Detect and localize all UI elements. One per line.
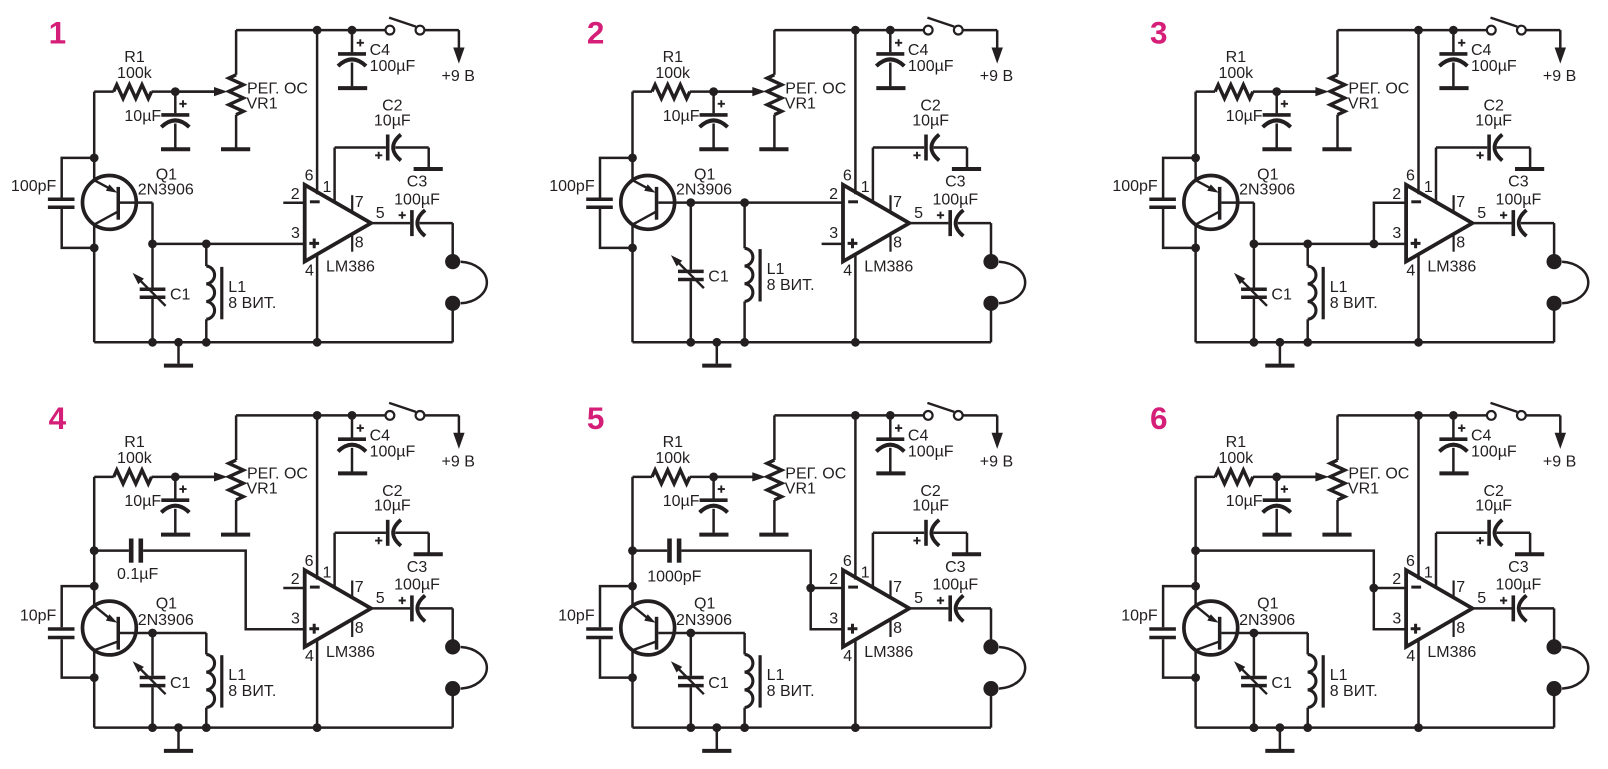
capacitor 10µF bbox=[1275, 477, 1278, 499]
resistor R1 bbox=[1196, 90, 1216, 93]
ground VR1 bbox=[759, 533, 788, 537]
svg-text:R1: R1 bbox=[663, 49, 684, 66]
10µF plus sign bbox=[179, 486, 186, 493]
10µF plus sign bbox=[179, 100, 186, 107]
node pin6 junction on rail bbox=[1414, 26, 1423, 35]
potentiometer VR1 bbox=[1336, 415, 1339, 460]
wire pin 1 bbox=[1435, 148, 1438, 203]
C2 plus sign bbox=[1477, 152, 1484, 159]
svg-text:10µF: 10µF bbox=[912, 498, 949, 515]
svg-text:3: 3 bbox=[1392, 610, 1401, 627]
node bypass top bbox=[628, 582, 637, 591]
svg-text:100pF: 100pF bbox=[549, 178, 595, 195]
U1 plus sign bbox=[309, 624, 319, 634]
capacitor C3 bbox=[1472, 222, 1511, 225]
ground VR1 bbox=[1322, 147, 1351, 151]
switch SA1 bbox=[386, 26, 395, 35]
node bypass top bbox=[1191, 154, 1200, 163]
C4 plus sign bbox=[895, 39, 902, 46]
wire C3 to jack bbox=[1553, 608, 1556, 641]
node bypass top bbox=[90, 582, 99, 591]
jack terminal top bbox=[445, 639, 460, 654]
switch SA1 bbox=[386, 411, 395, 420]
svg-text:L1: L1 bbox=[767, 667, 785, 684]
wire base lead bbox=[1221, 201, 1254, 204]
inductor L1 bbox=[205, 633, 208, 654]
ground bottom bbox=[716, 342, 719, 363]
pin 7 tick bbox=[889, 581, 891, 599]
svg-text:10µF: 10µF bbox=[1226, 108, 1263, 125]
U1 minus sign bbox=[848, 586, 858, 589]
svg-text:L1: L1 bbox=[228, 667, 246, 684]
wire top supply rail bbox=[774, 29, 923, 32]
VR1 wiper arrow bbox=[714, 90, 753, 93]
svg-text:100µF: 100µF bbox=[394, 577, 440, 594]
svg-text:10µF: 10µF bbox=[663, 108, 700, 125]
svg-text:8: 8 bbox=[893, 235, 902, 252]
wire C3 to jack bbox=[451, 608, 454, 641]
wire to +9 B bbox=[1559, 30, 1562, 50]
svg-text:2N3906: 2N3906 bbox=[1239, 182, 1295, 199]
VR1 wiper arrow bbox=[175, 476, 214, 479]
switch SA1 bbox=[924, 411, 933, 420]
wire left collector branch bbox=[1194, 650, 1197, 727]
svg-text:6: 6 bbox=[843, 553, 852, 570]
svg-text:100µF: 100µF bbox=[1496, 191, 1542, 208]
svg-text:10µF: 10µF bbox=[1226, 493, 1263, 510]
U1 plus sign bbox=[848, 624, 858, 634]
node pin 4 rail bbox=[1414, 338, 1423, 347]
ground 10µF bbox=[161, 147, 190, 151]
wire top supply rail bbox=[236, 29, 385, 32]
pin 7 tick bbox=[351, 581, 353, 599]
node C1 bottom bbox=[1250, 723, 1259, 732]
ground bottom bbox=[177, 342, 180, 363]
ground 10µF bbox=[161, 533, 190, 537]
L1 core bar bbox=[758, 249, 761, 301]
node pin 4 rail bbox=[313, 338, 322, 347]
node L1 bottom bbox=[740, 723, 749, 732]
svg-text:1: 1 bbox=[323, 564, 332, 581]
svg-text:100k: 100k bbox=[655, 450, 691, 467]
pin 2 stub bbox=[283, 587, 304, 590]
node C1 top bbox=[148, 240, 157, 249]
svg-text:LM386: LM386 bbox=[326, 644, 375, 661]
node bypass bottom bbox=[628, 244, 637, 253]
node bypass bottom bbox=[90, 673, 99, 682]
op-amp U1 LM386 bbox=[305, 570, 371, 647]
node C4 junction on rail bbox=[886, 411, 895, 420]
transistor Q1 bbox=[1184, 176, 1238, 230]
wire C3 to jack bbox=[451, 223, 454, 256]
wire to +9 B bbox=[996, 415, 999, 435]
svg-text:8 ВИТ.: 8 ВИТ. bbox=[228, 295, 276, 312]
capacitor C2 bbox=[1436, 532, 1487, 535]
svg-text:7: 7 bbox=[1456, 194, 1465, 211]
pin 7 tick bbox=[1453, 195, 1455, 213]
node pin6 junction on rail bbox=[313, 26, 322, 35]
10µF plus sign bbox=[718, 486, 725, 493]
wire pin 6 bbox=[854, 415, 857, 579]
svg-text:+9 В: +9 В bbox=[442, 454, 475, 471]
node L1 top bbox=[202, 240, 211, 249]
ground 10µF bbox=[1262, 147, 1291, 151]
wire pin 1 bbox=[333, 533, 336, 588]
capacitor 10µF bbox=[712, 477, 715, 499]
svg-text:3: 3 bbox=[829, 225, 838, 242]
svg-text:2: 2 bbox=[1392, 571, 1401, 588]
svg-text:10µF: 10µF bbox=[663, 493, 700, 510]
svg-text:C4: C4 bbox=[370, 428, 391, 445]
svg-text:8 ВИТ.: 8 ВИТ. bbox=[1330, 683, 1378, 700]
ground 10µF bbox=[699, 533, 728, 537]
wire pin 4 bbox=[1417, 639, 1420, 728]
transistor Q1 bbox=[83, 601, 137, 655]
svg-text:10µF: 10µF bbox=[374, 498, 411, 515]
op-amp U1 LM386 bbox=[305, 185, 371, 262]
svg-text:1000pF: 1000pF bbox=[647, 568, 701, 585]
svg-text:6: 6 bbox=[1406, 168, 1415, 185]
svg-text:2N3906: 2N3906 bbox=[138, 182, 194, 199]
wire coupling to pin 3 bbox=[143, 551, 305, 630]
transistor Q1 bbox=[83, 176, 137, 230]
node C4 junction on rail bbox=[1449, 26, 1458, 35]
svg-text:7: 7 bbox=[1456, 579, 1465, 596]
wire pin 4 bbox=[854, 253, 857, 342]
wire lead to L1 bbox=[1254, 632, 1308, 635]
C3 plus sign bbox=[937, 597, 944, 604]
VR1 wiper arrow bbox=[1277, 476, 1316, 479]
wire pin 6 bbox=[1417, 30, 1420, 194]
node L1 bottom bbox=[740, 338, 749, 347]
potentiometer VR1 bbox=[1336, 30, 1339, 75]
jack cable arc bbox=[1562, 647, 1588, 689]
ground VR1 bbox=[1322, 533, 1351, 537]
svg-text:7: 7 bbox=[893, 194, 902, 211]
wire base lead bbox=[120, 632, 153, 635]
node riser pin2 junction bbox=[806, 584, 815, 593]
capacitor C2 bbox=[873, 532, 924, 535]
wire base lead bbox=[658, 632, 691, 635]
node C4 junction on rail bbox=[886, 26, 895, 35]
L1 core bar bbox=[758, 655, 761, 707]
capacitor C4 bbox=[1452, 30, 1455, 52]
wire top supply rail bbox=[236, 414, 385, 417]
svg-text:R1: R1 bbox=[1226, 434, 1247, 451]
svg-text:5: 5 bbox=[376, 205, 385, 222]
svg-text:3: 3 bbox=[1392, 225, 1401, 242]
svg-text:2: 2 bbox=[291, 186, 300, 203]
wire top supply rail bbox=[774, 414, 923, 417]
node C1 top bbox=[686, 198, 695, 207]
svg-text:10µF: 10µF bbox=[1475, 112, 1512, 129]
capacitor C1 bbox=[151, 633, 154, 676]
svg-text:C1: C1 bbox=[170, 287, 191, 304]
ground C2 bbox=[1515, 552, 1544, 556]
capacitor C4 bbox=[889, 415, 892, 437]
wire left emitter branch bbox=[1194, 477, 1197, 606]
node C1 top bbox=[1250, 629, 1259, 638]
svg-text:Q1: Q1 bbox=[156, 596, 177, 613]
wire base lead to pin 2 bbox=[658, 201, 843, 204]
svg-text:1: 1 bbox=[1424, 179, 1433, 196]
node pin6 junction on rail bbox=[851, 26, 860, 35]
node C1 bottom bbox=[1250, 338, 1259, 347]
svg-text:+9 В: +9 В bbox=[442, 68, 475, 85]
C1 trimmer arrow bbox=[1238, 666, 1267, 695]
svg-text:+9 В: +9 В bbox=[1543, 454, 1576, 471]
C4 plus sign bbox=[1458, 425, 1465, 432]
capacitor 10µF bbox=[1275, 92, 1278, 114]
wire to coupling cap bbox=[633, 549, 668, 552]
svg-text:5: 5 bbox=[1477, 590, 1486, 607]
switch SA1 bbox=[1487, 26, 1496, 35]
svg-text:C3: C3 bbox=[1508, 559, 1529, 576]
wire left collector branch bbox=[631, 225, 634, 343]
wire left emitter branch bbox=[631, 477, 634, 606]
svg-text:100µF: 100µF bbox=[1496, 577, 1542, 594]
L1 core bar bbox=[220, 267, 223, 319]
svg-text:10µF: 10µF bbox=[374, 112, 411, 129]
node R1/10uF junction bbox=[1272, 473, 1281, 482]
svg-text:100µF: 100µF bbox=[908, 444, 954, 461]
U1 minus sign bbox=[1411, 586, 1421, 589]
node C1 bottom bbox=[148, 723, 157, 732]
svg-text:2: 2 bbox=[829, 571, 838, 588]
C4 plus sign bbox=[895, 425, 902, 432]
svg-text:5: 5 bbox=[1477, 205, 1486, 222]
wire C3 to jack bbox=[990, 223, 993, 256]
svg-text:6: 6 bbox=[305, 553, 314, 570]
VR1 wiper arrow bbox=[714, 476, 753, 479]
potentiometer VR1 bbox=[773, 30, 776, 75]
wire lead to L1 bbox=[691, 632, 745, 635]
wire pin 4 bbox=[1417, 253, 1420, 342]
wire riser to pin 2 bbox=[1374, 587, 1406, 590]
svg-text:Q1: Q1 bbox=[694, 596, 715, 613]
transistor Q1 bbox=[621, 176, 675, 230]
U1 minus sign bbox=[310, 200, 320, 203]
wire jack to rail bbox=[451, 693, 454, 727]
wire jack to rail bbox=[990, 693, 993, 727]
svg-text:2: 2 bbox=[829, 186, 838, 203]
U1 plus sign bbox=[309, 239, 319, 249]
svg-text:100µF: 100µF bbox=[394, 191, 440, 208]
node bypass top bbox=[90, 154, 99, 163]
U1 plus sign bbox=[1411, 624, 1421, 634]
svg-text:VR1: VR1 bbox=[247, 481, 278, 498]
wire pin 6 bbox=[854, 30, 857, 194]
wire left collector branch bbox=[93, 650, 96, 727]
node C1 top bbox=[148, 629, 157, 638]
capacitor C1 bbox=[1253, 633, 1256, 676]
node R1/10uF junction bbox=[171, 473, 180, 482]
wire jack to rail bbox=[1553, 693, 1556, 727]
wire C3 to jack bbox=[1553, 223, 1556, 256]
svg-text:100µF: 100µF bbox=[370, 58, 416, 75]
op-amp U1 LM386 bbox=[843, 570, 909, 647]
+9 B supply arrow bbox=[992, 48, 1003, 64]
node L1 bottom bbox=[1303, 723, 1312, 732]
C1 trimmer arrow bbox=[137, 277, 166, 306]
wire left collector branch bbox=[1194, 225, 1197, 343]
capacitor 100pF bbox=[1163, 158, 1196, 198]
ground 10µF bbox=[699, 147, 728, 151]
svg-text:C4: C4 bbox=[1471, 428, 1492, 445]
capacitor C4 bbox=[889, 30, 892, 52]
wire jack to rail bbox=[451, 308, 454, 342]
svg-text:C3: C3 bbox=[1508, 174, 1529, 191]
svg-text:3: 3 bbox=[291, 225, 300, 242]
node riser junction bbox=[1370, 240, 1379, 249]
jack cable arc bbox=[1562, 262, 1588, 304]
svg-text:1: 1 bbox=[323, 179, 332, 196]
node bypass bottom bbox=[1191, 673, 1200, 682]
svg-text:LM386: LM386 bbox=[864, 644, 913, 661]
svg-text:1: 1 bbox=[861, 179, 870, 196]
wire pin 4 bbox=[316, 253, 319, 342]
node ground junction bbox=[712, 338, 721, 347]
svg-text:+9 В: +9 В bbox=[1543, 68, 1576, 85]
potentiometer VR1 bbox=[235, 415, 238, 460]
jack terminal top bbox=[1547, 254, 1562, 269]
node C1 top bbox=[686, 629, 695, 638]
node L1 bottom bbox=[202, 723, 211, 732]
pin 7 tick bbox=[351, 195, 353, 213]
pin 8 tick bbox=[1453, 620, 1455, 637]
svg-text:8: 8 bbox=[355, 235, 364, 252]
C1 trimmer arrow bbox=[675, 260, 704, 289]
svg-text:C3: C3 bbox=[407, 559, 428, 576]
svg-text:C1: C1 bbox=[1271, 675, 1292, 692]
10µF plus sign bbox=[1281, 486, 1288, 493]
node pin 4 rail bbox=[313, 723, 322, 732]
ground bottom bbox=[177, 728, 180, 749]
ground C2 bbox=[414, 167, 443, 171]
svg-text:8: 8 bbox=[1456, 620, 1465, 637]
resistor R1 bbox=[1196, 476, 1216, 479]
svg-text:5: 5 bbox=[914, 590, 923, 607]
jack terminal bottom bbox=[983, 681, 998, 696]
pin 7 tick bbox=[1453, 581, 1455, 599]
+9 B supply arrow bbox=[1555, 48, 1566, 64]
svg-text:R1: R1 bbox=[663, 434, 684, 451]
wire coupling riser bbox=[681, 551, 843, 630]
node L1 top bbox=[740, 198, 749, 207]
node C1 bottom bbox=[686, 723, 695, 732]
ground C4 bbox=[1439, 86, 1468, 90]
pin 8 tick bbox=[889, 620, 891, 637]
jack cable arc bbox=[999, 647, 1025, 689]
node pin 4 rail bbox=[851, 723, 860, 732]
ground C4 bbox=[876, 471, 905, 475]
capacitor C3 bbox=[909, 607, 948, 610]
node C1 bottom bbox=[148, 338, 157, 347]
node R1/10uF junction bbox=[709, 473, 718, 482]
svg-text:4: 4 bbox=[843, 648, 852, 665]
node C4 junction on rail bbox=[1449, 411, 1458, 420]
wire bottom rail bbox=[633, 726, 992, 729]
jack terminal bottom bbox=[445, 296, 460, 311]
svg-text:6: 6 bbox=[1406, 553, 1415, 570]
svg-text:1: 1 bbox=[861, 564, 870, 581]
C3 plus sign bbox=[399, 212, 406, 219]
svg-text:1: 1 bbox=[49, 15, 67, 51]
capacitor C2 bbox=[1436, 146, 1487, 149]
svg-text:2N3906: 2N3906 bbox=[1239, 612, 1295, 629]
svg-text:100µF: 100µF bbox=[1471, 444, 1517, 461]
jack terminal top bbox=[1547, 639, 1562, 654]
svg-text:6: 6 bbox=[1150, 400, 1168, 436]
node R1/10uF junction bbox=[1272, 87, 1281, 96]
svg-text:LM386: LM386 bbox=[326, 259, 375, 276]
C4 plus sign bbox=[1458, 39, 1465, 46]
wire to coupling cap bbox=[94, 549, 129, 552]
node ground junction bbox=[174, 338, 183, 347]
wire base lead bbox=[120, 201, 153, 204]
ground C4 bbox=[1439, 471, 1468, 475]
svg-text:8: 8 bbox=[1456, 235, 1465, 252]
ground C4 bbox=[338, 86, 367, 90]
capacitor 10µF bbox=[174, 92, 177, 114]
svg-text:100k: 100k bbox=[1218, 65, 1254, 82]
wire left collector branch bbox=[93, 225, 96, 343]
svg-text:2N3906: 2N3906 bbox=[676, 612, 732, 629]
node L1 top bbox=[1303, 240, 1312, 249]
svg-text:100pF: 100pF bbox=[1112, 178, 1158, 195]
wire left emitter branch bbox=[93, 92, 96, 181]
resistor R1 bbox=[633, 476, 653, 479]
jack terminal bottom bbox=[1547, 296, 1562, 311]
capacitor 1000pF bbox=[667, 539, 672, 563]
capacitor 100pF bbox=[62, 158, 94, 198]
node ground junction bbox=[1276, 723, 1285, 732]
node pin6 junction on rail bbox=[851, 411, 860, 420]
svg-text:0.1µF: 0.1µF bbox=[117, 566, 158, 583]
capacitor 10pF bbox=[62, 586, 94, 627]
node L1 bottom bbox=[202, 338, 211, 347]
10µF plus sign bbox=[1281, 100, 1288, 107]
capacitor C3 bbox=[371, 222, 410, 225]
svg-text:+9 В: +9 В bbox=[980, 454, 1013, 471]
L1 core bar bbox=[220, 655, 223, 707]
node bypass top bbox=[1191, 582, 1200, 591]
wire bottom rail bbox=[94, 726, 453, 729]
svg-text:C3: C3 bbox=[945, 559, 966, 576]
svg-text:100µF: 100µF bbox=[932, 577, 978, 594]
svg-text:LM386: LM386 bbox=[864, 259, 913, 276]
resistor R1 bbox=[633, 90, 653, 93]
wire bottom rail bbox=[1196, 341, 1555, 344]
wire base lead bbox=[1221, 632, 1254, 635]
capacitor C2 bbox=[873, 146, 924, 149]
svg-text:8 ВИТ.: 8 ВИТ. bbox=[767, 683, 815, 700]
pin 8 tick bbox=[1453, 235, 1455, 252]
ground bottom bbox=[1279, 342, 1282, 363]
svg-text:C1: C1 bbox=[170, 675, 191, 692]
svg-text:L1: L1 bbox=[228, 279, 246, 296]
svg-text:7: 7 bbox=[355, 579, 364, 596]
ground VR1 bbox=[221, 147, 250, 151]
svg-text:4: 4 bbox=[843, 263, 852, 280]
wire to +9 B bbox=[1559, 415, 1562, 435]
pin 8 tick bbox=[351, 620, 353, 637]
wire to +9 B bbox=[458, 30, 461, 50]
capacitor 10pF bbox=[600, 586, 633, 627]
capacitor C2 bbox=[335, 532, 386, 535]
wire to +9 B bbox=[996, 30, 999, 50]
svg-text:C4: C4 bbox=[1471, 42, 1492, 59]
